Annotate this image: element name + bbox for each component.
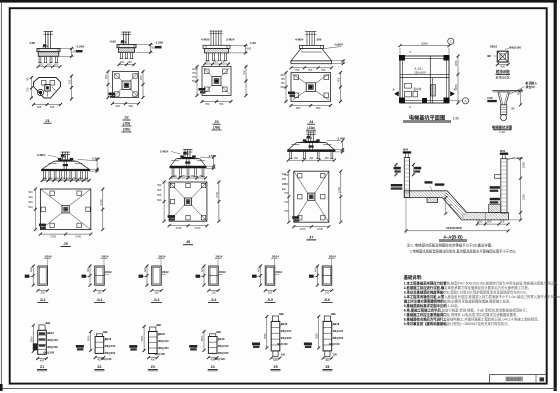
beam section JL5 left leader: [255, 275, 261, 277]
pile top detail bottom dimension: [497, 64, 508, 66]
svg-text:400: 400: [210, 358, 215, 362]
svg-text:M24: M24: [500, 149, 506, 153]
svg-text:525: 525: [67, 79, 71, 84]
svg-text:400: 400: [200, 267, 204, 272]
footing detail J5 plan pad: [40, 189, 90, 230]
svg-text:400: 400: [273, 358, 278, 362]
svg-text:750: 750: [284, 182, 289, 186]
J2 elevation base plate: [117, 45, 136, 48]
J4 elevation right leader: [324, 47, 341, 49]
svg-text:2Φ14: 2Φ14: [329, 255, 336, 259]
footing detail J7 plan bottom dimension: [294, 226, 329, 228]
svg-text:750: 750: [219, 102, 224, 106]
footing detail J5 plan corner label blob: [39, 224, 46, 227]
svg-text:250: 250: [268, 290, 273, 294]
beam section JL3 bottom dimension: [152, 289, 162, 291]
footing detail J2 plan pad: [113, 72, 139, 98]
svg-text:JL5: JL5: [267, 298, 273, 302]
elevator pit plan top dimension: [400, 45, 449, 47]
footing detail J7 elevation footing slab: [287, 150, 335, 152]
svg-text:750: 750: [284, 209, 289, 213]
J4 plan bottom dimension: [291, 105, 331, 107]
svg-text:900: 900: [28, 200, 33, 204]
svg-text:Φ8@100: Φ8@100: [154, 352, 165, 356]
column section Z5 body: [271, 321, 280, 351]
svg-text:500: 500: [192, 79, 197, 83]
elevator pit plan axis circle right: [462, 98, 468, 104]
svg-text:A-A(B-B): A-A(B-B): [443, 234, 463, 239]
footing detail J5 elevation ground line: [49, 162, 57, 164]
J2 plan right dimension: [142, 72, 144, 98]
svg-text:(J2a): (J2a): [123, 122, 130, 126]
svg-text:750: 750: [321, 68, 326, 72]
J4 plan right dimension: [340, 73, 342, 102]
J4 plan corner label blob: [288, 92, 295, 95]
svg-text:450: 450: [294, 158, 299, 160]
svg-text:950: 950: [337, 77, 341, 82]
svg-text:注:1. 电梯基坑底板及侧壁砼抗渗等级不小于S6,做法详图。: 注:1. 电梯基坑底板及侧壁砼抗渗等级不小于S6,做法详图。: [407, 243, 495, 248]
J4 plan column: [306, 83, 315, 92]
beam section JL6 body: [322, 266, 332, 285]
svg-text:2-M24: 2-M24: [226, 38, 235, 42]
footing detail J5 elevation footing slab: [41, 169, 90, 171]
svg-text:900: 900: [282, 177, 287, 181]
svg-text:900: 900: [28, 195, 33, 199]
column section Z4 left label blob: [189, 345, 197, 348]
svg-text:Φ8@100: Φ8@100: [277, 342, 288, 346]
J1 elevation piles: [38, 56, 40, 62]
footing detail J6 elevation ground line: [171, 160, 179, 162]
svg-text:5100(5400): 5100(5400): [446, 226, 462, 230]
J1 elevation pile dimension row: [38, 66, 60, 68]
pit pile detail funnel: [498, 92, 510, 105]
svg-text:2700: 2700: [337, 186, 341, 192]
column section Z1 bottom dimension: [38, 358, 47, 360]
column section Z3 top stub: [150, 327, 156, 332]
section A-A bottom step dims: [476, 220, 478, 226]
svg-text:900: 900: [157, 183, 162, 187]
svg-text:150: 150: [333, 352, 338, 356]
svg-text:700: 700: [447, 203, 452, 207]
footing detail J6 plan diagonals: [169, 182, 184, 198]
pit pile detail right leader texts: [508, 87, 525, 96]
elevator pit plan corner columns: [399, 55, 405, 61]
footing detail J4 plan pad: [291, 73, 331, 102]
svg-text:2700: 2700: [99, 199, 103, 205]
svg-text:400: 400: [257, 267, 261, 272]
column section Z6 top stub: [324, 316, 330, 321]
svg-text:Z3: Z3: [151, 365, 155, 369]
J3 plan pile squares: [205, 69, 210, 74]
pile top detail inner ring: [500, 54, 505, 59]
svg-text:900: 900: [28, 190, 33, 194]
svg-text:Φ8@100: Φ8@100: [44, 351, 55, 355]
section A-A right dimension line: [520, 159, 522, 220]
sheet left edge line: [0, 2, 2, 390]
svg-text:Φ8: Φ8: [511, 107, 515, 111]
J4 elevation bottom dim row: [291, 67, 332, 69]
J3 plan left dimension stack: [196, 67, 198, 96]
J3 elevation right dimensions: [227, 44, 249, 46]
J2 elevation right dimensions: [137, 44, 154, 46]
section A-A left wall anchor bolts: [405, 153, 407, 158]
footing detail J6 plan left dimension stack: [163, 182, 165, 221]
svg-text:2700: 2700: [75, 234, 81, 238]
svg-text:8.基础验收合格后方可进行上部结构施工,并做好隐蔽工程验收记: 8.基础验收合格后方可进行上部结构施工,并做好隐蔽工程验收记录,144,2.4 …: [404, 316, 541, 321]
beam section JL4 top dimension: [217, 259, 219, 266]
svg-text:2Φ14: 2Φ14: [159, 255, 166, 259]
svg-text:2250: 2250: [522, 194, 526, 200]
svg-text:3500: 3500: [200, 335, 204, 341]
svg-text:6000: 6000: [421, 42, 428, 46]
svg-text:3500: 3500: [315, 333, 319, 339]
column section Z2 bottom dimension: [95, 357, 104, 359]
svg-text:900: 900: [116, 104, 121, 108]
svg-text:950: 950: [281, 73, 286, 77]
column section Z5 left label blob: [252, 343, 260, 346]
svg-text:-0.800: -0.800: [334, 42, 343, 46]
J3 elevation piles: [206, 53, 208, 61]
beam section JL4 body: [209, 266, 219, 285]
section A-A left wall: [404, 158, 409, 198]
title block drawing-number text: [506, 377, 524, 382]
footing detail J7 elevation base plate: [304, 141, 319, 143]
svg-text:750: 750: [26, 87, 30, 92]
J2 plan diagonals: [114, 73, 123, 82]
svg-text:b: b: [410, 50, 412, 54]
column section Z1 left dimension: [32, 325, 34, 351]
footing detail J6 elevation footing slab: [170, 166, 207, 168]
beam section JL1 left leader: [28, 275, 34, 277]
elevator pit plan cross beam: [400, 73, 449, 75]
column section Z3 left label blob: [129, 345, 137, 348]
svg-text:Φ8@200: Φ8@200: [47, 345, 58, 349]
svg-text:4.本工程采用锤击沉桩,以贯入度及桩长双控,桩端进入持力层深: 4.本工程采用锤击沉桩,以贯入度及桩长双控,桩端进入持力层深度不小于1.0m,最…: [404, 294, 560, 299]
svg-text:8Φ18: 8Φ18: [105, 337, 112, 341]
svg-text:900: 900: [104, 74, 108, 79]
svg-text:JL1: JL1: [40, 298, 46, 302]
svg-text:基础详图: 基础详图: [506, 377, 521, 382]
svg-text:Z4: Z4: [211, 365, 215, 369]
J3 elevation footing block: [205, 49, 229, 53]
section A-A right wall base pit: [489, 204, 501, 212]
J1 elevation base plate: [37, 49, 60, 52]
beam section JL5 bottom dimension: [265, 289, 275, 291]
beam section JL6 left dimension: [317, 266, 319, 285]
svg-text:JL4: JL4: [211, 298, 217, 302]
svg-text:2Φ16: 2Φ16: [490, 45, 497, 49]
svg-text:施工时注意对周围建筑物的影响,必要时采取减振隔振措施,确保施: 施工时注意对周围建筑物的影响,必要时采取减振隔振措施,确保施工安全。: [404, 299, 513, 304]
beam section JL4 right leader: [218, 274, 223, 275]
section A-A left outside labels: [391, 184, 403, 187]
column section Z2 left dimension: [90, 332, 92, 351]
footing detail J6 plan right dimension: [218, 182, 220, 221]
footing detail J1 plan pad: [34, 78, 61, 99]
J1 plan pile top-right: [50, 81, 55, 86]
svg-text:750: 750: [26, 77, 30, 82]
svg-text:集水坑: 集水坑: [414, 87, 422, 91]
beam section JL2 left dimension: [89, 266, 91, 285]
footing detail J6 elevation anchor bolts: [184, 149, 186, 157]
svg-text:500: 500: [103, 330, 108, 334]
svg-text:(J4a): (J4a): [307, 126, 314, 130]
elevator pit plan outer wall: [400, 56, 449, 103]
svg-text:350: 350: [478, 220, 483, 224]
svg-text:250: 250: [40, 290, 45, 294]
svg-text:8Φ18: 8Φ18: [281, 322, 288, 326]
J2 elevation piles: [120, 52, 122, 58]
svg-text:400: 400: [151, 358, 156, 362]
sheet top edge bar: [0, 0, 557, 3]
svg-text:1:50: 1:50: [453, 116, 460, 120]
J2 plan column: [122, 81, 131, 90]
elevator pit plan section mark left: [395, 92, 399, 97]
svg-text:电梯基坑平面图: 电梯基坑平面图: [409, 113, 445, 121]
sheet bottom edge line: [1, 388, 556, 390]
footing detail J5 elevation base plate: [59, 160, 72, 162]
svg-text:8Φ18: 8Φ18: [47, 331, 54, 335]
svg-text:900: 900: [28, 205, 33, 209]
pit pile detail pile circle: [501, 115, 507, 121]
svg-text:8Φ18: 8Φ18: [158, 332, 165, 336]
svg-text:900: 900: [157, 188, 162, 192]
title block divider line: [490, 374, 547, 376]
svg-text:1850: 1850: [522, 162, 526, 168]
svg-text:8Φ18: 8Φ18: [218, 337, 225, 341]
elevator pit plan axis circle top: [448, 38, 454, 44]
beam section JL6 top dimension: [331, 259, 333, 266]
J4 plan diagonals: [293, 74, 307, 84]
svg-text:750: 750: [205, 102, 210, 106]
svg-text:Φ8@200: Φ8@200: [333, 336, 344, 340]
svg-text:C30: C30: [30, 41, 36, 45]
sheet right edge bar: [554, 0, 557, 391]
svg-text:Φ8@200: Φ8@200: [281, 336, 292, 340]
svg-text:950: 950: [316, 106, 321, 110]
svg-text:7.基础施工时应注意预留洞口及 预埋件,以免后凿,洞口位置: 7.基础施工时应注意预留洞口及 预埋件,以免后凿,洞口位置详见设备图纸要求。: [404, 312, 520, 317]
column section Z4 body: [208, 337, 217, 354]
svg-text:基础说明:: 基础说明:: [403, 274, 423, 281]
svg-text:750: 750: [281, 81, 286, 85]
pile top detail square: [497, 51, 508, 62]
footing detail J5 elevation right leader: [78, 160, 96, 161]
sheet bottom-left corner mark: [0, 384, 3, 391]
svg-text:JL2: JL2: [97, 298, 103, 302]
beam section JL4 bottom dimension: [209, 289, 219, 291]
svg-text:500: 500: [331, 312, 336, 316]
svg-text:750: 750: [192, 71, 197, 75]
beam section JL1 bottom dimension: [38, 289, 48, 291]
beam section JL3 body: [152, 266, 162, 285]
svg-text:2-M24: 2-M24: [160, 149, 169, 153]
beam section JL2 top dimension: [103, 259, 105, 266]
footing detail J6 elevation right leader: [200, 157, 212, 158]
J3 plan corner label blob: [199, 88, 206, 91]
column section Z5 bottom dimension: [271, 357, 280, 359]
svg-text:450: 450: [325, 158, 330, 160]
svg-text:1850: 1850: [454, 60, 458, 66]
svg-text:450: 450: [206, 61, 211, 64]
column section Z4 left dimension: [203, 332, 205, 351]
svg-text:M24: M24: [403, 148, 409, 152]
column section Z5 bottom stub: [273, 351, 278, 356]
column section Z5 top stub: [272, 316, 278, 321]
svg-text:450: 450: [222, 61, 227, 64]
beam section JL3 top dimension: [160, 259, 162, 266]
svg-text:400: 400: [314, 267, 318, 272]
svg-text:600: 600: [247, 47, 252, 51]
beam section JL6 left leader: [312, 275, 318, 277]
footing detail J7 plan pile squares: [298, 174, 302, 178]
svg-text:2Φ14: 2Φ14: [45, 255, 52, 259]
section A-A lower base slab: [467, 212, 509, 214]
svg-text:2Φ12: 2Φ12: [162, 270, 169, 274]
column section Z1 body: [38, 330, 47, 354]
svg-text:-1.500: -1.500: [76, 44, 85, 48]
J3 plan diagonals: [204, 68, 213, 77]
column section Z1 top stub: [39, 325, 45, 330]
svg-text:桩顶详图: 桩顶详图: [495, 69, 510, 74]
J1 plan right dimension: [71, 76, 73, 99]
footing detail J7 elevation right leader: [326, 139, 340, 142]
svg-text:2Φ14: 2Φ14: [272, 255, 279, 259]
svg-text:750: 750: [192, 75, 197, 79]
svg-text:750: 750: [284, 173, 289, 177]
beam section JL1 body: [38, 266, 48, 285]
J1 plan bottom dimension: [34, 104, 61, 106]
footing detail J6 plan bottom dimension: [169, 225, 207, 227]
column section Z3 body: [149, 332, 158, 354]
column section Z6 left label blob: [304, 343, 312, 346]
svg-text:500: 500: [487, 220, 492, 224]
svg-text:900: 900: [517, 90, 521, 95]
footing detail J5 plan column: [62, 206, 69, 213]
J3 plan bottom dimension: [202, 101, 231, 103]
J4 elevation footing slab: [291, 61, 332, 64]
beam section JL5 right leader: [275, 274, 280, 275]
column section Z6 bottom dimension: [323, 357, 332, 359]
svg-text:3500: 3500: [29, 336, 33, 342]
svg-text:500: 500: [157, 323, 162, 327]
svg-text:450: 450: [39, 63, 44, 67]
beam section JL1 top dimension: [46, 259, 48, 266]
svg-text:250: 250: [325, 290, 330, 294]
footing detail J5 plan right dimension: [102, 189, 104, 230]
footing detail J7 plan corner label blob: [292, 216, 299, 219]
J2 plan corner label blob: [109, 93, 116, 96]
svg-text:250: 250: [500, 220, 505, 224]
footing detail J6 elevation pedestal trapezoid: [171, 159, 206, 166]
svg-text:250: 250: [211, 290, 216, 294]
svg-text:Φ8@100: Φ8@100: [158, 339, 169, 343]
svg-text:Φ8@200: Φ8@200: [158, 346, 169, 350]
svg-text:4-M24: 4-M24: [295, 38, 304, 42]
svg-text:2700: 2700: [176, 226, 182, 230]
svg-text:Z2: Z2: [97, 365, 101, 369]
svg-text:400: 400: [40, 358, 45, 362]
svg-text:900: 900: [129, 104, 134, 108]
svg-text:400: 400: [97, 358, 102, 362]
elevator pit plan right dimension: [457, 56, 459, 103]
svg-text:2700: 2700: [195, 226, 201, 230]
footing detail J7 plan left dimension stack: [288, 171, 290, 222]
svg-text:Φ8@200: Φ8@200: [105, 351, 116, 355]
section A-A upper base slab: [404, 190, 447, 192]
column section Z4 bottom dimension: [208, 357, 217, 359]
svg-text:3.承台及基础梁砼强度等级C30,垫层C15厚100,保护层: 3.承台及基础梁砼强度等级C30,垫层C15厚100,保护层厚度承台及基础梁均为…: [404, 290, 529, 295]
svg-text:-1.500: -1.500: [155, 40, 164, 44]
beam section JL2 body: [95, 266, 105, 285]
svg-text:1:20: 1:20: [499, 130, 505, 134]
J1 plan pile bottom (dark circle): [37, 89, 43, 95]
svg-text:500: 500: [281, 85, 286, 89]
footing detail J7 elevation piles: [289, 152, 291, 159]
footing detail J3 elevation: [210, 31, 212, 46]
svg-text:3500: 3500: [263, 333, 267, 339]
column section Z1 left label blob: [33, 343, 37, 350]
svg-text:J1: J1: [45, 118, 50, 123]
section A-A right wall anchor bolts: [501, 154, 503, 159]
svg-text:Φ8: Φ8: [487, 54, 491, 58]
J2 plan pile squares: [115, 74, 119, 78]
column section Z6 bottom stub: [325, 351, 330, 356]
beam section JL2 left leader: [85, 275, 91, 277]
J3 plan column: [212, 77, 221, 86]
footing detail J5 plan pile squares: [50, 191, 54, 195]
beam section JL1 left dimension: [32, 266, 34, 285]
svg-text:750: 750: [308, 68, 313, 72]
svg-text:Φ8@100: Φ8@100: [218, 344, 229, 348]
section A-A left wall side brackets: [395, 165, 397, 175]
footing detail J6 plan pile squares: [170, 183, 174, 187]
svg-text:500: 500: [279, 312, 284, 316]
J4 plan pile squares: [294, 75, 299, 80]
J2 plan bottom dimension: [113, 103, 139, 105]
J4 plan left dimension stack: [285, 73, 287, 102]
footing detail J6 elevation base plate: [182, 157, 195, 159]
elevator pit plan section mark right: [451, 92, 455, 97]
beam section JL4 left leader: [199, 275, 205, 277]
footing detail J5 elevation anchor bolts: [62, 152, 64, 160]
J1 elevation footing block: [38, 52, 59, 57]
svg-text:2Φ12: 2Φ12: [219, 270, 226, 274]
svg-text:4-M30: 4-M30: [201, 38, 210, 42]
J4 elevation base plate: [300, 45, 324, 48]
title block sheet number: [540, 377, 545, 381]
svg-text:400: 400: [325, 358, 330, 362]
svg-text:750: 750: [295, 68, 300, 72]
section A-A right wall ledge: [494, 174, 501, 176]
svg-text:750: 750: [281, 77, 286, 81]
elevator pit plan hatched shaft: [431, 85, 436, 96]
J1 plan inner lines: [47, 91, 49, 97]
column section Z2 body: [95, 337, 104, 354]
column section Z5 left dimension: [266, 316, 268, 348]
svg-text:JL3: JL3: [154, 298, 160, 302]
beam section JL5 left dimension: [260, 266, 262, 285]
svg-text:525: 525: [37, 105, 42, 109]
footing detail J7 elevation ground line: [291, 144, 299, 146]
svg-text:J3: J3: [214, 119, 219, 124]
svg-text:2.电梯基坑底板垫层做法同承台,基坑壁及底板水平筋锚固长度不: 2.电梯基坑底板垫层做法同承台,基坑壁及底板水平筋锚固长度不小于35d。: [410, 249, 518, 254]
svg-text:Z6: Z6: [325, 365, 329, 369]
beam section JL6 bottom dimension: [322, 289, 332, 291]
svg-text:750: 750: [242, 70, 246, 75]
footing detail J5 plan bottom dimension: [40, 233, 90, 235]
svg-text:Φ8@100: Φ8@100: [47, 338, 58, 342]
column section Z6 body: [323, 321, 332, 351]
footing detail J7 elevation pedestal trapezoid: [288, 143, 334, 150]
